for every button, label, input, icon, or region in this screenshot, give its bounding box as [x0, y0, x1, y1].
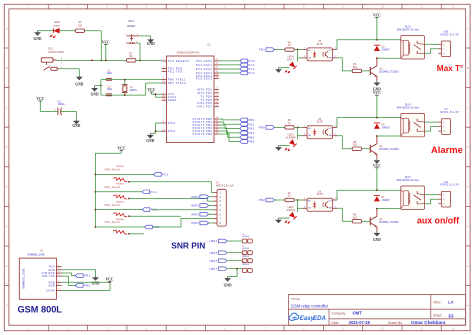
power VCC [102, 40, 110, 60]
svg-text:Date:: Date: [332, 321, 340, 325]
svg-text:GSM relay controller: GSM relay controller [291, 304, 329, 309]
ground [146, 133, 154, 143]
node junction [105, 60, 107, 62]
wire [228, 269, 238, 277]
svg-text:R14/2w: R14/2w [116, 201, 124, 203]
svg-text:VCC: VCC [373, 91, 381, 95]
svg-text:Company:: Company: [332, 312, 347, 316]
svg-text:SNR PIN: SNR PIN [171, 241, 205, 251]
svg-text:HDR-M: HDR-M [242, 248, 249, 250]
wire SNR rail [95, 153, 121, 227]
svg-text:A: A [6, 26, 8, 30]
node junction [128, 181, 130, 235]
wire [40, 110, 57, 112]
node junction [376, 189, 378, 209]
connector U6S KF301-5.0-3P [438, 30, 459, 56]
svg-text:10: 10 [381, 327, 384, 331]
svg-text:SNR_Res01: SNR_Res01 [104, 222, 120, 224]
svg-text:560: 560 [353, 66, 358, 69]
svg-text:IMP7: IMP7 [210, 267, 218, 271]
text SNR PIN [171, 241, 205, 251]
connector J2 HDR-M-2.54 [242, 246, 252, 255]
title block [289, 295, 466, 326]
svg-text:PC0: PC0 [248, 59, 255, 63]
svg-text:VCC: VCC [102, 40, 110, 44]
svg-text:SNR_Res01: SNR_Res01 [104, 205, 120, 207]
svg-text:1000u: 1000u [58, 103, 65, 106]
net flag IMP3 [191, 221, 213, 225]
wire [298, 127, 303, 135]
svg-text:C: C [6, 106, 8, 110]
resistor R5 1k [285, 119, 294, 129]
wire [294, 199, 302, 201]
net flag IMP1 [191, 204, 213, 208]
node junction [297, 49, 299, 51]
capacitor C1 15pF [106, 70, 113, 81]
power VCC [373, 164, 381, 190]
net flag PB5 [240, 140, 255, 144]
net flag PB3 [240, 131, 255, 135]
net flag PB2 [259, 198, 275, 202]
resistor R2 1k [285, 192, 294, 202]
svg-text:16MHz: 16MHz [129, 89, 137, 92]
svg-text:GND: GND [147, 42, 155, 46]
resistor R15 SNR_Res01 [104, 219, 127, 235]
text GSM 800L [18, 305, 63, 315]
svg-text:HDR-M: HDR-M [242, 256, 249, 258]
wire [377, 208, 401, 210]
connector J1 HDR-M-2.54 [242, 234, 252, 243]
svg-text:220: 220 [78, 24, 83, 27]
wire [425, 43, 439, 45]
svg-text:COL: COL [329, 128, 332, 130]
optocoupler U9 817B [303, 191, 338, 212]
svg-text:BC546B_C713615: BC546B_C713615 [379, 222, 399, 224]
wire [425, 121, 439, 123]
wire [219, 68, 240, 70]
resistor R3 1k [285, 41, 294, 51]
svg-text:817B: 817B [317, 43, 323, 46]
svg-text:OMT: OMT [353, 311, 363, 316]
node junction [376, 117, 378, 137]
svg-text:SRA-05VDC-CL blue: SRA-05VDC-CL blue [397, 29, 420, 32]
svg-text:SNR_Res01: SNR_Res01 [104, 170, 120, 172]
ground [34, 31, 42, 41]
LED LED5 ALARME [279, 134, 298, 151]
wire [62, 281, 111, 283]
svg-text:PC1: PC1 [150, 190, 157, 194]
transistor Q4 BC546B [370, 58, 399, 81]
svg-text:R12/2w: R12/2w [116, 166, 124, 168]
svg-text:REV:: REV: [434, 301, 442, 305]
svg-text:AREF: AREF [168, 99, 177, 102]
wire [62, 270, 96, 276]
svg-text:PB7 XTAL2: PB7 XTAL2 [168, 82, 186, 85]
resistor R13 SNR_Res01 [104, 184, 127, 200]
connector J3 HDR-M-2.54 [242, 254, 252, 263]
svg-text:PC2: PC2 [248, 67, 255, 71]
transistor Q6 BC546B [370, 136, 399, 159]
wire [337, 136, 352, 149]
net flag PC2 [240, 67, 255, 71]
optocoupler U8 817B [303, 118, 338, 139]
net flag PB1 [259, 48, 275, 52]
resistor R14 SNR_Res01 [104, 201, 127, 217]
svg-text:GND: GND [34, 37, 42, 41]
power VCC [117, 146, 125, 153]
wire [136, 59, 162, 61]
net flag IMP6 [210, 259, 227, 263]
net flag PB1 [240, 122, 255, 126]
node junction [297, 199, 299, 201]
net flag PC3 [145, 225, 160, 229]
text GSM relay controller [291, 304, 329, 309]
svg-text:PB0: PB0 [259, 126, 265, 130]
svg-text:KF301-5.0-3P: KF301-5.0-3P [440, 184, 459, 187]
svg-text:GND: GND [72, 124, 80, 128]
resistor R9 560 [352, 214, 361, 223]
push button KEY1 RESET [126, 20, 140, 44]
node junction [155, 93, 157, 95]
wire [425, 127, 439, 132]
svg-text:GND: GND [373, 238, 381, 242]
node junction [100, 60, 102, 62]
wire [219, 128, 240, 133]
svg-text:PB1: PB1 [248, 122, 255, 126]
logo EasyEDA [289, 313, 326, 322]
svg-text:Sheet:: Sheet: [433, 313, 442, 317]
svg-text:IMP4: IMP4 [210, 239, 218, 243]
svg-text:G: G [467, 264, 469, 268]
svg-text:BC546B_C713615: BC546B_C713615 [379, 149, 399, 151]
net flag PB4 [240, 135, 255, 139]
wire [275, 49, 285, 51]
svg-text:KF301-5.0-3P: KF301-5.0-3P [440, 33, 459, 36]
wire [150, 123, 161, 133]
wire [377, 57, 401, 59]
wire XTAL2 net [101, 83, 162, 95]
wire [62, 276, 76, 285]
LED LED1 power [50, 21, 60, 38]
text Sheet 1/1 [433, 313, 454, 317]
power VCC [36, 97, 44, 111]
svg-text:PC5 ADC5: PC5 ADC5 [196, 78, 213, 81]
svg-text:ALARME: ALARME [286, 136, 296, 139]
capacitor C3 1000u polarized [54, 100, 65, 115]
relay RLY3 SRA-05VDC-CL [397, 26, 425, 60]
net flag IMP4 [210, 239, 227, 243]
svg-text:15pF: 15pF [107, 88, 113, 91]
wire [337, 208, 352, 221]
svg-text:PD1 TXD: PD1 TXD [168, 71, 183, 74]
svg-text:E: E [467, 185, 469, 189]
text Max T deg [437, 64, 463, 73]
ground [147, 38, 155, 46]
svg-text:10: 10 [381, 4, 384, 8]
svg-text:2021-07-18: 2021-07-18 [349, 320, 371, 325]
svg-text:PC0: PC0 [162, 173, 169, 177]
svg-text:VCC: VCC [373, 164, 381, 168]
ground [275, 218, 282, 223]
wire [362, 148, 371, 150]
svg-text:H: H [6, 304, 8, 308]
wire [95, 85, 101, 88]
wire [129, 233, 144, 235]
net flag PC0 [240, 59, 255, 63]
net flag PB0 [240, 118, 255, 122]
net flag IMP0 [191, 195, 213, 199]
svg-text:PC0 ADC0: PC0 ADC0 [196, 60, 213, 63]
svg-text:KEY1: KEY1 [128, 20, 135, 23]
wire [227, 240, 242, 242]
svg-text:HDR-M: HDR-M [242, 236, 249, 238]
node junction [236, 268, 238, 270]
svg-text:R13/2w: R13/2w [116, 184, 124, 186]
resistor R6 220 [75, 21, 84, 32]
node junction [100, 79, 126, 96]
net flag PH1 [75, 274, 90, 278]
connector H1 HDR-F-2.54_1x8 [214, 182, 235, 226]
capacitor C2 15pF [106, 85, 113, 95]
resistor R7 10k [127, 52, 136, 62]
text Date Drawn By [332, 320, 446, 325]
svg-text:GND: GND [168, 130, 175, 133]
diode D1 1N4007 flyback [374, 196, 391, 202]
svg-text:Max T°: Max T° [437, 64, 463, 73]
crystal X2 16MHz [122, 80, 138, 96]
resistor R8 560 [352, 141, 361, 150]
wire [362, 220, 371, 222]
wire [59, 69, 80, 75]
wire [377, 39, 401, 41]
svg-text:PC3: PC3 [248, 71, 255, 75]
wire [377, 135, 401, 137]
IC U1 ATMEGA328P-PU [162, 43, 220, 143]
svg-text:G: G [6, 264, 8, 268]
net flag IMP5 [210, 251, 227, 255]
wire [425, 49, 439, 54]
connector J4 HDR-M-2.54 [242, 262, 252, 273]
wire [95, 209, 142, 211]
svg-text:Alarme: Alarme [431, 144, 463, 155]
ground [275, 146, 282, 151]
svg-text:PH0: PH0 [84, 284, 91, 288]
svg-text:Omar Chebbara: Omar Chebbara [411, 320, 446, 325]
wire [60, 30, 76, 32]
svg-text:11: 11 [420, 4, 423, 8]
connector DC1 DC005-2.0MM [41, 48, 63, 71]
wire [95, 226, 144, 228]
svg-text:PB2: PB2 [248, 127, 255, 131]
net flag PC3 [240, 71, 255, 75]
svg-text:MAX T: MAX T [287, 59, 295, 62]
svg-text:HDR-M: HDR-M [242, 264, 249, 266]
wire main 5V rail [56, 59, 126, 61]
wire [219, 72, 240, 74]
svg-text:EDA: EDA [313, 315, 326, 322]
relay RLY2 SRA-05VDC-CL [397, 176, 425, 210]
wire [62, 282, 111, 290]
svg-text:IMP0: IMP0 [191, 195, 199, 199]
wire [377, 117, 401, 119]
svg-text:1N4007: 1N4007 [381, 126, 390, 129]
text Company OMT [332, 311, 363, 316]
svg-text:SNR_Res01: SNR_Res01 [104, 187, 120, 189]
wire [95, 173, 153, 175]
text REV 1.0 [434, 300, 455, 305]
net flag PC0 [154, 173, 169, 177]
svg-text:KF301-5.0-3P: KF301-5.0-3P [440, 111, 459, 114]
wire [219, 131, 240, 137]
module U4 SIM800L_EVB [19, 250, 61, 299]
wire [275, 199, 285, 201]
svg-text:5V/4V: 5V/4V [46, 290, 55, 293]
svg-text:VCC: VCC [117, 146, 125, 150]
svg-text:SIM800L_EVB: SIM800L_EVB [27, 253, 44, 257]
power VCC [373, 91, 381, 117]
wire [62, 273, 76, 276]
svg-text:aux on/off: aux on/off [417, 215, 459, 225]
net flag PC1 [142, 190, 157, 194]
wire [136, 43, 140, 60]
svg-text:GND: GND [91, 92, 99, 96]
wire [377, 189, 401, 191]
svg-text:PC2 ADC2: PC2 ADC2 [196, 68, 213, 71]
LED LED4 MAX T [279, 56, 298, 73]
wire [129, 215, 181, 217]
svg-text:12: 12 [452, 327, 455, 331]
node junction [95, 226, 97, 228]
net flag PB0 [259, 126, 275, 130]
text Alarme [431, 144, 463, 155]
svg-text:AIN1 PD7: AIN1 PD7 [197, 106, 213, 109]
svg-text:IMP5: IMP5 [210, 251, 218, 255]
svg-text:A: A [467, 26, 469, 30]
wire [100, 80, 102, 96]
svg-text:power: power [54, 24, 61, 27]
ground [224, 277, 232, 288]
svg-text:PB3: PB3 [248, 131, 255, 135]
svg-text:C: C [467, 106, 469, 110]
node junction [297, 127, 299, 129]
wire [219, 64, 240, 66]
wire [38, 30, 54, 32]
connector U11 KF301-5.0-3P [438, 181, 459, 207]
ground [275, 68, 282, 73]
svg-text:560: 560 [353, 144, 358, 147]
node junction [109, 281, 111, 283]
wire [337, 58, 352, 71]
svg-text:817B: 817B [317, 121, 323, 124]
svg-text:560: 560 [353, 216, 358, 219]
svg-text:1/1: 1/1 [448, 313, 453, 317]
svg-text:SIM800L_EVB: SIM800L_EVB [22, 269, 26, 289]
svg-text:SRA-05VDC-CL blue: SRA-05VDC-CL blue [397, 179, 420, 182]
diode D2 1N4007 flyback [374, 45, 391, 51]
svg-text:817B: 817B [317, 193, 323, 196]
svg-text:PC6 RESET#: PC6 RESET# [168, 60, 189, 63]
svg-text:PH1: PH1 [84, 274, 91, 278]
net flag IMP2 [191, 212, 213, 216]
transistor Q1 BC546B [370, 209, 399, 232]
wire [298, 200, 303, 208]
svg-text:IMP3: IMP3 [191, 221, 199, 225]
svg-text:BC546B_C713615: BC546B_C713615 [379, 71, 399, 73]
node junction [155, 130, 157, 132]
ground [374, 159, 381, 164]
resistor R4 560 [352, 63, 361, 72]
svg-text:HDR-F-2.54_1x8: HDR-F-2.54_1x8 [216, 185, 234, 187]
wire [151, 94, 161, 97]
wire [219, 118, 240, 121]
svg-text:PB1: PB1 [259, 48, 265, 52]
wire [219, 125, 240, 129]
LED LED3 ON/OFF [279, 206, 298, 223]
svg-text:COL: COL [329, 50, 332, 52]
net flag PC2 [142, 208, 157, 212]
svg-text:GND: GND [224, 284, 232, 288]
svg-text:VCC: VCC [36, 97, 44, 101]
wire [337, 190, 377, 200]
svg-text:PC1 ADC1: PC1 ADC1 [196, 64, 213, 67]
ground [373, 231, 381, 242]
svg-text:SRA-05VDC-CL blue: SRA-05VDC-CL blue [397, 106, 420, 109]
svg-text:1N4007: 1N4007 [381, 199, 390, 202]
node junction [95, 209, 97, 211]
node junction [91, 60, 93, 62]
svg-text:PCINT5 PB5: PCINT5 PB5 [193, 133, 213, 136]
net flag PC1 [240, 63, 255, 67]
svg-text:IMP2: IMP2 [191, 212, 199, 216]
svg-text:PB0: PB0 [248, 118, 255, 122]
wire [362, 70, 371, 72]
wire [219, 122, 240, 124]
wire [275, 126, 285, 128]
wire [95, 191, 142, 193]
connector U7 KF301-5.0-3P [438, 108, 459, 134]
wire [219, 60, 240, 62]
node junction [376, 39, 378, 59]
svg-text:GND: GND [75, 82, 83, 86]
wire [152, 209, 214, 211]
svg-text:VCC: VCC [106, 278, 114, 282]
svg-text:GSM 800L: GSM 800L [18, 305, 63, 315]
wire XTAL1 net [101, 79, 162, 81]
svg-text:PB4: PB4 [248, 135, 255, 139]
wire [425, 199, 439, 204]
wire [61, 111, 77, 119]
ground [91, 86, 99, 96]
svg-text:H: H [467, 304, 469, 308]
node junction [95, 191, 97, 193]
ground [373, 81, 381, 92]
svg-text:B: B [467, 66, 469, 70]
svg-text:15pF: 15pF [107, 72, 113, 75]
net flag IMP7 [210, 267, 227, 271]
svg-text:E: E [6, 185, 8, 189]
svg-text:ON/OFF: ON/OFF [286, 209, 296, 212]
svg-text:PB5: PB5 [248, 140, 255, 144]
wire [227, 252, 242, 254]
power VCC [373, 13, 381, 39]
svg-text:DC005-2.0MM: DC005-2.0MM [48, 51, 64, 54]
wire [298, 50, 303, 58]
wire [129, 199, 214, 202]
svg-text:TITLE:: TITLE: [291, 297, 300, 301]
wire [294, 49, 302, 51]
svg-text:IMP1: IMP1 [191, 204, 199, 208]
node junction [139, 60, 141, 62]
